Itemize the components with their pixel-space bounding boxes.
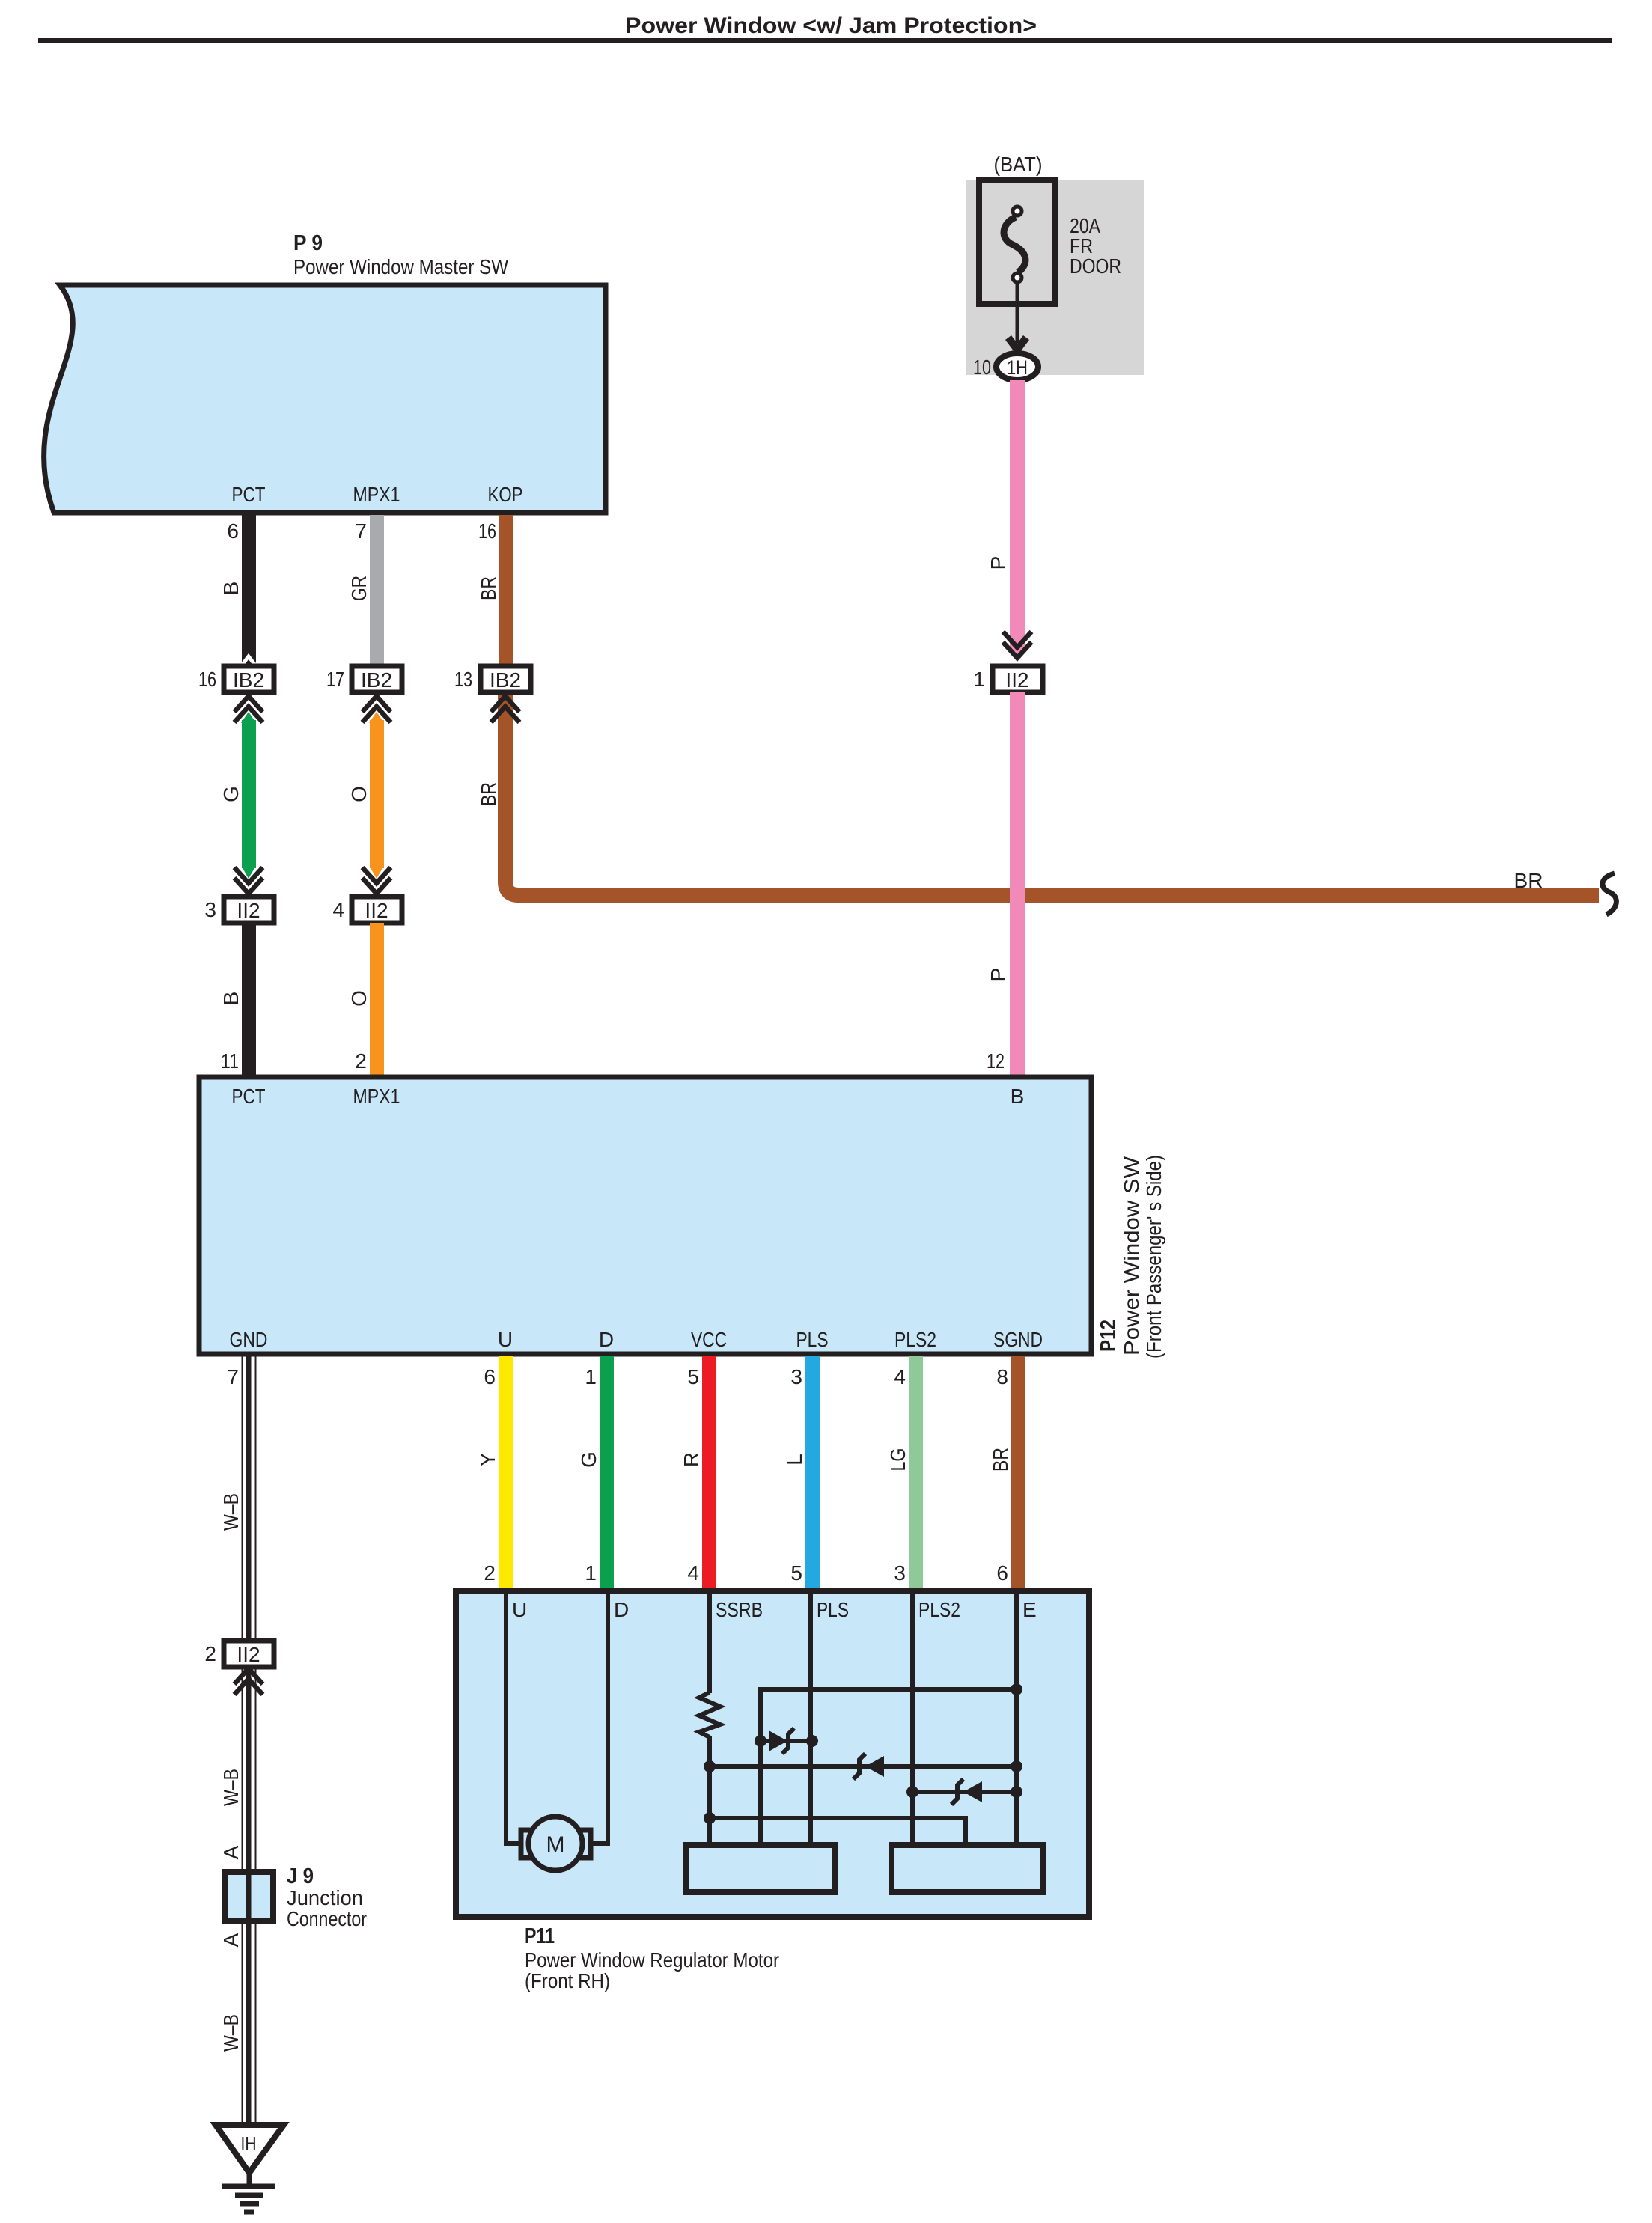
- svg-text:P 9: P 9: [293, 231, 323, 255]
- svg-text:(Front Passenger' s Side): (Front Passenger' s Side): [1142, 1155, 1165, 1358]
- svg-text:PLS2: PLS2: [918, 1598, 960, 1621]
- svg-text:1: 1: [973, 668, 985, 691]
- wire notch above IB2-16: [241, 656, 256, 666]
- svg-text:6: 6: [227, 519, 239, 543]
- svg-text:3: 3: [894, 1561, 906, 1585]
- svg-text:Junction: Junction: [287, 1886, 363, 1909]
- svg-text:II2: II2: [237, 899, 260, 922]
- chevron up below IB2-16: [234, 696, 263, 722]
- limit switch box right: [891, 1845, 1043, 1892]
- svg-text:E: E: [1022, 1598, 1037, 1621]
- connector IB2 pin 16: [198, 666, 274, 692]
- svg-text:BR: BR: [477, 576, 500, 600]
- internal wire diode2 row: [710, 1764, 1017, 1769]
- chevron down above II2-4: [362, 867, 391, 894]
- svg-text:6: 6: [484, 1365, 496, 1388]
- wire O orange from II2-4 to P12 MPX1: [370, 923, 384, 1077]
- svg-text:5: 5: [790, 1561, 802, 1585]
- wire W-B from II2-2 to ground: [243, 1667, 256, 2125]
- svg-text:KOP: KOP: [488, 483, 523, 506]
- svg-text:IB2: IB2: [361, 668, 392, 692]
- svg-text:MPX1: MPX1: [353, 1085, 400, 1108]
- svg-text:G: G: [219, 786, 243, 802]
- svg-text:GR: GR: [347, 576, 371, 601]
- wire G green P12 D to P11 D: [600, 1356, 614, 1589]
- resistor: [699, 1692, 720, 1737]
- svg-text:Power Window <w/ Jam Protectio: Power Window <w/ Jam Protection>: [625, 13, 1037, 38]
- component P11 Power Window Regulator Motor box: [456, 1591, 1089, 1917]
- svg-text:2: 2: [204, 1642, 216, 1665]
- wire through J9: [246, 1872, 252, 1921]
- svg-text:PCT: PCT: [232, 483, 266, 506]
- svg-text:Power Window SW: Power Window SW: [1120, 1156, 1143, 1356]
- connector II2 pin 3: [204, 897, 274, 923]
- svg-text:Power Window Regulator Motor: Power Window Regulator Motor: [525, 1948, 779, 1972]
- wire D internal to motor: [591, 1591, 608, 1844]
- svg-text:IB2: IB2: [490, 668, 521, 692]
- svg-text:1: 1: [585, 1561, 597, 1585]
- wire BR brown from IB2-13 turning right (long run): [505, 695, 1599, 895]
- svg-text:A: A: [219, 1845, 243, 1859]
- svg-text:MPX1: MPX1: [353, 483, 400, 506]
- svg-text:IH: IH: [241, 2132, 257, 2155]
- svg-text:4: 4: [332, 898, 344, 921]
- svg-text:5: 5: [687, 1365, 699, 1388]
- svg-text:P12: P12: [1097, 1320, 1121, 1352]
- chevron up below IB2-13: [491, 696, 519, 722]
- svg-text:BR: BR: [989, 1448, 1012, 1472]
- fuse element: [1004, 207, 1025, 282]
- diode D2 (zener, pointing left): [853, 1754, 884, 1779]
- svg-text:3: 3: [204, 898, 216, 921]
- svg-text:G: G: [577, 1451, 600, 1468]
- wire PLS internal: [808, 1591, 813, 1844]
- wire GR gray from P9 MPX1 to IB2: [370, 515, 384, 665]
- svg-text:O: O: [347, 786, 371, 802]
- connector II2 pin 4: [332, 897, 402, 923]
- svg-text:GND: GND: [230, 1328, 268, 1351]
- chevron down above II2-3: [234, 867, 263, 894]
- svg-text:D: D: [614, 1598, 629, 1621]
- svg-text:L: L: [783, 1454, 806, 1466]
- svg-text:P11: P11: [525, 1924, 555, 1948]
- wire G green from IB2-16 to II2-3: [241, 712, 256, 879]
- svg-text:6: 6: [996, 1561, 1008, 1585]
- arrow from fuse to 1H: [1016, 284, 1019, 343]
- svg-text:16: 16: [478, 519, 496, 543]
- connector IB2 pin 17: [326, 666, 402, 692]
- svg-text:SSRB: SSRB: [716, 1598, 763, 1621]
- svg-text:7: 7: [227, 1365, 239, 1388]
- svg-text:8: 8: [996, 1365, 1008, 1388]
- header rule: [38, 38, 1612, 43]
- internal wire diode3 row: [912, 1790, 1017, 1794]
- svg-text:(BAT): (BAT): [994, 153, 1043, 176]
- internal wire top horizontal: [761, 1689, 1017, 1844]
- wire break squiggle: [1603, 873, 1616, 915]
- svg-text:11: 11: [221, 1049, 239, 1073]
- svg-text:J 9: J 9: [287, 1864, 314, 1888]
- svg-text:P: P: [987, 968, 1010, 982]
- svg-text:VCC: VCC: [691, 1328, 727, 1351]
- wire P pink from 1H to chevron: [1010, 380, 1025, 648]
- svg-text:B: B: [219, 582, 243, 596]
- svg-text:3: 3: [790, 1365, 802, 1388]
- svg-text:U: U: [498, 1328, 513, 1351]
- svg-text:13: 13: [454, 668, 472, 691]
- connector II2 pin 1: [973, 666, 1043, 692]
- wire SSRB internal: [707, 1591, 712, 1693]
- svg-text:PLS: PLS: [796, 1328, 829, 1351]
- wire Y yellow P12 U to P11 U: [499, 1356, 513, 1589]
- chevron up below II2-2: [234, 1668, 263, 1695]
- svg-text:17: 17: [326, 668, 344, 691]
- junction connector J9: [225, 1872, 273, 1921]
- svg-text:1: 1: [585, 1365, 597, 1388]
- svg-text:4: 4: [894, 1365, 906, 1388]
- internal wire diode1 row: [761, 1739, 812, 1743]
- wire BR brown from P9 KOP to IB2: [499, 515, 513, 665]
- wire L blue P12 PLS to P11 PLS: [805, 1356, 820, 1589]
- svg-text:Y: Y: [476, 1452, 499, 1466]
- chevron up below IB2-17: [362, 696, 391, 722]
- svg-text:BR: BR: [1514, 869, 1543, 892]
- chevron down above II2-1: [1003, 632, 1031, 658]
- wire PLS2 internal: [910, 1591, 915, 1844]
- svg-text:PCT: PCT: [232, 1085, 266, 1108]
- svg-text:II2: II2: [1005, 668, 1028, 692]
- svg-text:M: M: [546, 1832, 565, 1857]
- wire U internal to motor: [506, 1591, 521, 1844]
- motor M: [521, 1817, 591, 1870]
- svg-text:4: 4: [687, 1561, 699, 1585]
- svg-text:2: 2: [355, 1049, 367, 1073]
- svg-text:2: 2: [484, 1561, 496, 1585]
- svg-text:W–B: W–B: [219, 2014, 243, 2052]
- internal wire lower horizontal: [710, 1818, 966, 1844]
- ground IH triangle: [216, 2125, 284, 2173]
- svg-text:P: P: [987, 556, 1010, 570]
- svg-text:B: B: [219, 992, 243, 1006]
- svg-text:O: O: [347, 990, 371, 1007]
- svg-text:Power Window Master SW: Power Window Master SW: [293, 255, 508, 278]
- wire W-B from P12 GND to II2-2: [243, 1356, 256, 1641]
- svg-text:A: A: [219, 1933, 243, 1947]
- wire LG light green P12 PLS2 to P11 PLS2: [909, 1356, 923, 1589]
- svg-text:U: U: [512, 1598, 527, 1621]
- connector IB2 pin 13: [454, 666, 531, 692]
- wire O orange from IB2-17 to II2-4: [369, 712, 384, 879]
- svg-text:7: 7: [355, 519, 367, 543]
- svg-text:PLS: PLS: [817, 1598, 849, 1621]
- diode D3 (zener, pointing left): [951, 1779, 982, 1805]
- ground stem and bars: [222, 2173, 275, 2212]
- diode D1 (zener, pointing right): [769, 1728, 794, 1754]
- wire P pink from II2-1 to P12 B: [1010, 692, 1025, 1077]
- wire R red P12 VCC to P11 SSRB: [702, 1356, 716, 1589]
- connector oval 1H: [996, 353, 1038, 380]
- svg-text:D: D: [599, 1328, 614, 1351]
- svg-text:16: 16: [198, 668, 216, 691]
- svg-text:1H: 1H: [1007, 356, 1028, 379]
- wire E internal: [1014, 1591, 1019, 1844]
- svg-text:LG: LG: [886, 1448, 909, 1472]
- connector II2 pin 2: [204, 1641, 274, 1667]
- svg-text:PLS2: PLS2: [894, 1328, 936, 1351]
- junction dots: [704, 1683, 1022, 1824]
- svg-text:10: 10: [973, 356, 991, 379]
- svg-text:BR: BR: [477, 782, 500, 806]
- svg-text:(Front RH): (Front RH): [525, 1969, 610, 1992]
- svg-text:SGND: SGND: [993, 1328, 1043, 1351]
- fuse 20A FR DOOR (rectangle): [979, 180, 1055, 304]
- svg-text:B: B: [1011, 1085, 1025, 1108]
- connector P9 Power Window Master SW (box): [44, 285, 606, 513]
- svg-text:II2: II2: [237, 1643, 260, 1666]
- wire B black from P9 PCT to IB2: [242, 515, 256, 665]
- limit switch box left: [686, 1845, 835, 1892]
- svg-text:Connector: Connector: [287, 1907, 367, 1930]
- fuse block gray box: [966, 180, 1144, 375]
- svg-text:II2: II2: [365, 899, 388, 922]
- wire B black from II2-3 to P12 PCT: [242, 923, 256, 1077]
- svg-text:R: R: [680, 1452, 703, 1467]
- connector P12 Power Window SW box: [199, 1077, 1091, 1354]
- svg-text:DOOR: DOOR: [1070, 254, 1121, 278]
- svg-text:IB2: IB2: [233, 668, 264, 692]
- svg-text:W–B: W–B: [219, 1493, 243, 1531]
- wire BR brown P12 SGND to P11 E: [1011, 1356, 1025, 1589]
- svg-text:12: 12: [987, 1049, 1005, 1073]
- svg-text:W–B: W–B: [219, 1769, 243, 1806]
